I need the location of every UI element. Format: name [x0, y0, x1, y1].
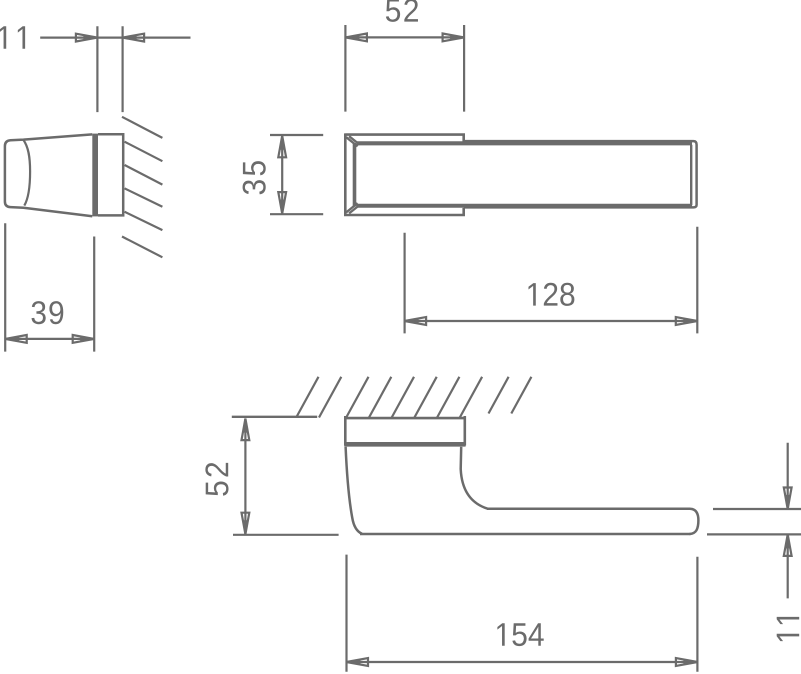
- wall line (also 52 top extension): [232, 416, 317, 418]
- dimension 11 text: [0, 26, 25, 48]
- dimension 128 : dimension line: [405, 320, 698, 322]
- grip outer profile (right of step): [464, 141, 697, 207]
- handle end inner arc: [23, 140, 30, 206]
- neck right edge S-curve: [461, 447, 488, 509]
- rosette bottom band: [344, 442, 465, 447]
- dimension 52 bottom : dimension line: [244, 419, 246, 535]
- wall hatching (view 1): [122, 117, 162, 257]
- dimension 52 arrow left (points left): [345, 34, 367, 42]
- dimension 128 text: [528, 283, 574, 306]
- dimension 128 arrow right (points right): [676, 317, 698, 325]
- dimension 52 bottom arrow bottom (points down): [242, 513, 250, 535]
- dimension 154 arrow left (points left): [347, 658, 369, 666]
- dimension 35 extension lines: [270, 135, 323, 214]
- dimension 52 extension lines: [345, 25, 464, 112]
- dimension 11 right arrow bottom (points up): [784, 534, 792, 556]
- dimension 11 right : dimension line segments: [787, 443, 789, 599]
- dimension 154 arrow right (points right): [676, 658, 698, 666]
- grip bottom edge band: [357, 204, 693, 208]
- dimension 35 : dimension line: [281, 136, 283, 214]
- dimension 52 bottom extension line (lower): [233, 534, 339, 536]
- dimension 11 extension lines: [97, 26, 122, 112]
- dimension 128 arrow left (points left): [405, 317, 427, 325]
- dimension 128 extension lines: [405, 227, 698, 334]
- dimension 52 top : dimension line: [345, 36, 464, 38]
- dimension 52 bottom arrow top (points up): [242, 419, 250, 441]
- grip end cap inner line (right): [690, 145, 692, 205]
- dimension 154 : dimension line: [347, 661, 698, 663]
- dimension 39 extension lines: [5, 223, 94, 351]
- grip top line: [487, 508, 690, 511]
- dimension 35 arrow top (points up): [278, 136, 286, 158]
- dimension 11 right arrow top (points down): [784, 488, 792, 510]
- chamfer bottom-left (double diagonal): [346, 203, 359, 213]
- dimension 11 arrow right (points left): [123, 34, 145, 42]
- neck outline (52 wide): [345, 133, 463, 216]
- wall hatching (view 3): [296, 377, 531, 418]
- chamfer top-left (double diagonal): [346, 136, 359, 146]
- grip top edge band: [357, 141, 693, 145]
- grip left end edge: [353, 143, 357, 206]
- dimension 154 extension lines: [347, 555, 698, 672]
- rosette plate edge-on (thick bar): [92, 134, 98, 217]
- dimension 35 arrow bottom (points down): [278, 192, 286, 214]
- grip tip (rounded end): [690, 509, 699, 534]
- neck left edge curve: [346, 447, 362, 534]
- dimension 52 bottom text (rotated): [205, 463, 228, 496]
- dimension 11 right text (rotated): [777, 617, 799, 641]
- handle end-view outline (left cap + tapered body): [5, 134, 92, 216]
- rosette base rectangle: [98, 134, 123, 215]
- dimension 154 text: [497, 623, 543, 646]
- dimension 35 text (rotated): [243, 161, 266, 194]
- rosette side view: [344, 416, 465, 446]
- dimension 39 text: [32, 301, 64, 324]
- dimension 39 arrow left (points left): [5, 335, 27, 343]
- dimension 39 arrow right (points right): [73, 335, 95, 343]
- dimension 11 right extension lines: [707, 509, 801, 534]
- dimension 52 arrow right (points right): [443, 34, 465, 42]
- dimension 52 text: [386, 0, 418, 22]
- dimension 39 : dimension line: [5, 338, 94, 340]
- dimension 11 (top-left) : dimension line: [40, 36, 190, 38]
- dimension 11 arrow left (points right): [76, 34, 98, 42]
- grip underside line: [360, 533, 691, 536]
